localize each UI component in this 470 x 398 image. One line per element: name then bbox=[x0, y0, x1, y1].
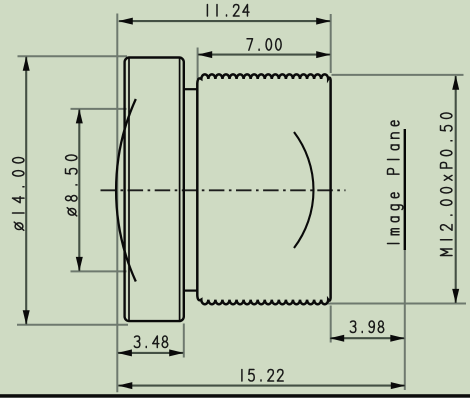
step line top cap-to-barrel bbox=[184, 88, 198, 90]
extension line: barrel right edge upward bbox=[330, 14, 332, 73]
cap rear face inner line bbox=[179, 58, 181, 320]
dimension text 3.48 bbox=[134, 336, 167, 348]
dimension 3.48 line and arrows bbox=[117, 349, 183, 356]
centerline optical axis dash-dot bbox=[101, 189, 346, 191]
front lens element convex surface arc bbox=[116, 99, 136, 282]
extension line: thread crest bottom rightward bbox=[327, 303, 466, 305]
dimension text M12.00xP0.50 bbox=[441, 113, 453, 255]
dimension D8.50 line and arrows bbox=[76, 109, 83, 272]
extension line: thread crest top rightward bbox=[332, 74, 464, 76]
dimension text D14.00 bbox=[13, 157, 25, 230]
dimension text 11.24 bbox=[207, 5, 249, 17]
extension line: thread start upward bbox=[197, 48, 199, 80]
dimension 7.00 line and arrows bbox=[198, 51, 331, 58]
dimension D14.00 line and arrows bbox=[23, 56, 30, 325]
dimension 15.22 line and arrows bbox=[118, 382, 406, 389]
extension line: aperture top leftward bbox=[71, 108, 127, 110]
dimension text D8.50 bbox=[65, 155, 77, 216]
extension line: cap right edge downward bbox=[183, 324, 185, 358]
extension line: barrel right edge downward bbox=[330, 306, 332, 343]
lens cap outline rounded rect bbox=[125, 58, 184, 322]
threaded barrel outline with thread crests bbox=[197, 74, 330, 304]
dimension 11.24 line and arrows bbox=[118, 18, 330, 25]
extension line: datum vertical at lens vertex bbox=[116, 14, 118, 393]
dimension 3.98 line and arrows bbox=[330, 335, 405, 342]
dimension M12 line and arrows bbox=[452, 75, 459, 303]
dimension text 3.98 bbox=[350, 321, 383, 333]
label Image Plane bbox=[388, 121, 403, 244]
extension line: aperture bottom leftward bbox=[71, 270, 127, 272]
rear lens element convex surface arc bbox=[294, 132, 314, 248]
extension line: image plane downward bbox=[404, 249, 406, 390]
bottom window border bar bbox=[0, 394, 470, 398]
cap front face inner line bbox=[128, 58, 130, 320]
image plane line bbox=[404, 129, 406, 250]
extension line: cap top edge leftward bbox=[18, 55, 128, 57]
extension line: cap bottom edge leftward bbox=[17, 324, 128, 326]
step line bottom cap-to-barrel bbox=[184, 290, 198, 292]
dimension text 15.22 bbox=[242, 370, 283, 382]
dimension text 7.00 bbox=[247, 39, 281, 51]
